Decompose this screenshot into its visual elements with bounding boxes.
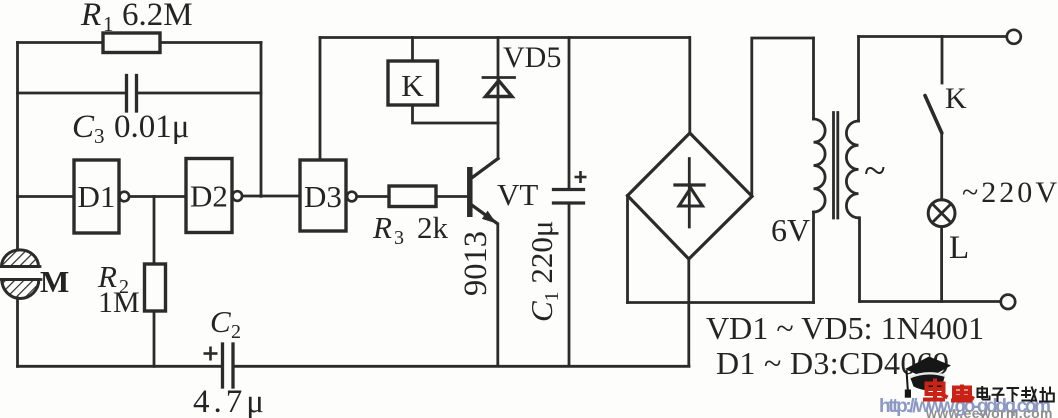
wire bottom rail left xyxy=(18,365,222,368)
wire D1 input xyxy=(18,195,75,198)
wire switch to lamp xyxy=(940,133,943,200)
label R1 6.2M xyxy=(80,0,193,36)
svg-text:3: 3 xyxy=(394,227,404,249)
svg-text:D3: D3 xyxy=(304,179,342,214)
svg-text:VD1 ~ VD5: 1N4001: VD1 ~ VD5: 1N4001 xyxy=(706,310,984,346)
wire feedback vertical xyxy=(260,43,263,197)
svg-text:K: K xyxy=(945,82,967,115)
wire left vertical top xyxy=(16,43,19,251)
svg-text:2k: 2k xyxy=(417,210,449,245)
transformer primary coil xyxy=(814,38,826,303)
wire secondary top rail xyxy=(859,35,1007,38)
wire emitter vertical xyxy=(496,224,499,366)
label R3 2k xyxy=(372,210,449,249)
diode VD5 xyxy=(483,78,515,97)
wire C3 rail right xyxy=(138,92,262,95)
resistor R3 xyxy=(389,186,436,207)
inverter D3 xyxy=(300,160,357,231)
wire bridge top vertical xyxy=(688,38,691,134)
svg-text:2: 2 xyxy=(231,321,241,343)
transformer secondary coil xyxy=(846,37,859,302)
wire C3 rail left xyxy=(18,92,126,95)
transformer core xyxy=(834,113,838,219)
svg-text:4.7μ: 4.7μ xyxy=(193,384,264,418)
svg-text:D1: D1 xyxy=(78,179,116,214)
svg-text:9013: 9013 xyxy=(458,231,494,296)
svg-text:www.eeworm.com: www.eeworm.com xyxy=(925,405,1054,418)
transistor VT xyxy=(470,159,498,224)
svg-text:6.2M: 6.2M xyxy=(122,0,193,33)
wire bridge left vertical xyxy=(626,196,629,303)
svg-text:3: 3 xyxy=(94,124,105,148)
svg-text:D2: D2 xyxy=(190,179,228,214)
wire R2 drop xyxy=(153,197,156,265)
wire AC bottom xyxy=(628,301,814,304)
switch K xyxy=(925,37,942,134)
inverter D1 xyxy=(74,160,129,233)
wire R2 to bottom rail xyxy=(153,311,156,366)
bridge inner diode xyxy=(675,159,704,228)
wire left vertical bottom xyxy=(16,298,19,366)
wire secondary bottom rail xyxy=(860,300,1001,303)
wire collector vertical xyxy=(497,38,500,159)
label R2 1M xyxy=(97,259,140,319)
svg-text:R: R xyxy=(372,210,392,245)
svg-text:~220V: ~220V xyxy=(962,176,1057,209)
svg-text:R: R xyxy=(80,0,101,33)
svg-text:~: ~ xyxy=(864,148,886,193)
svg-text:K: K xyxy=(401,68,424,103)
svg-text:C1 220μ: C1 220μ xyxy=(524,220,563,322)
wire bridge right to transformer xyxy=(752,38,814,196)
lamp L xyxy=(928,200,955,227)
watermark cap icon xyxy=(905,357,951,398)
svg-text:VT: VT xyxy=(497,177,538,212)
wire D3 to R3 xyxy=(357,195,389,198)
watermark text dianzi xyxy=(978,386,1054,402)
svg-text:C: C xyxy=(72,109,95,145)
wire D1 to D2 xyxy=(130,195,187,198)
wire D2 to D3 xyxy=(243,195,301,198)
svg-text:1: 1 xyxy=(103,12,114,36)
svg-text:VD5: VD5 xyxy=(503,41,561,74)
svg-text:6V: 6V xyxy=(771,212,810,248)
microphone M xyxy=(0,250,41,299)
capacitor C3 xyxy=(127,76,137,112)
wire bottom rail right xyxy=(234,365,690,368)
terminal bottom right xyxy=(1001,295,1015,309)
wire R3 to base xyxy=(436,195,468,198)
svg-text:C: C xyxy=(210,304,231,339)
svg-text:M: M xyxy=(40,264,69,299)
watermark chong 2 xyxy=(951,385,974,401)
svg-text:0.01μ: 0.01μ xyxy=(114,109,189,145)
relay K xyxy=(388,61,438,105)
capacitor C2 xyxy=(204,344,234,387)
label C3 0.01u xyxy=(72,109,189,148)
wire relay top xyxy=(411,38,414,62)
svg-text:1M: 1M xyxy=(98,286,140,319)
wire top-left rail xyxy=(18,41,262,44)
resistor R2 xyxy=(145,264,166,311)
wire middle top rail xyxy=(320,36,690,39)
label C2 xyxy=(210,304,241,343)
wire relay bottom L xyxy=(413,105,499,123)
wire D3 supply vertical xyxy=(319,38,322,161)
bridge rectifier xyxy=(628,133,753,259)
terminal top right xyxy=(1007,30,1021,44)
inverter D2 xyxy=(186,159,242,233)
wire lamp bottom xyxy=(940,227,943,302)
svg-text:L: L xyxy=(949,230,969,266)
resistor R1 xyxy=(103,33,160,53)
watermark chong 1 xyxy=(923,379,948,400)
wire bridge bottom vertical xyxy=(687,259,690,366)
capacitor C1 xyxy=(554,38,587,367)
